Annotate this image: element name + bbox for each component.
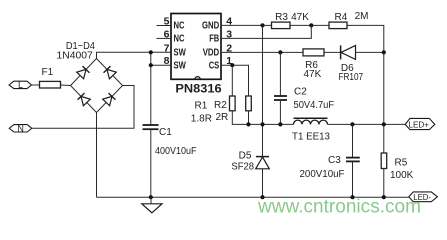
wire SW node down to C1 [150,65,152,125]
inductor T1 EE13 [292,118,330,142]
svg-text:NC: NC [174,34,185,45]
node junction CS/R1 [230,63,234,67]
svg-text:GND: GND [202,21,219,32]
wire R2 bottom [248,111,250,125]
svg-text:200V10uF: 200V10uF [300,169,345,180]
svg-text:50V4.7uF: 50V4.7uF [294,100,335,111]
wire R1 drop [231,65,233,96]
resistor R5 [381,124,413,197]
resistor R2 [214,96,251,123]
svg-text:FB: FB [209,34,219,45]
svg-text:T1 EE13: T1 EE13 [292,131,330,142]
wire D6 to right column [356,51,384,53]
pin 4 GND label [202,16,232,32]
svg-text:2R: 2R [216,112,229,123]
svg-text:1.8R: 1.8R [191,113,212,124]
pin 8 SW label [164,55,186,71]
wire R6 to D6 [324,51,341,53]
node L input tag [9,80,32,90]
node junction column/LED line [260,122,264,126]
wire FB pin to divider [221,25,311,38]
node junction VDD/C2 [278,50,282,54]
resistor R3 [272,12,310,29]
wire F1 to bridge [61,84,71,87]
pin 1 CS label [209,55,233,71]
wire VDD pin to R6 [221,51,303,53]
svg-text:SF28: SF28 [231,162,254,173]
svg-text:LED+: LED+ [409,119,430,129]
node junction GND/D5 [260,23,264,27]
pin 3 FB label [209,28,232,44]
svg-text:D5: D5 [239,151,252,162]
capacitor C1 [143,125,197,157]
node junction R3/R4/FB [309,23,313,27]
svg-text:R3: R3 [275,12,288,23]
node junction C2/LED line [278,122,282,126]
svg-text:C3: C3 [328,155,341,166]
resistor R1 [191,96,235,124]
node junction C3/rail [350,195,354,199]
node junction C3/LED line [350,122,354,126]
wire right column down to LED+ line [383,52,385,124]
wire R1 bottom to output line [232,111,293,125]
node junction SW2 [149,63,153,67]
node junction SW1 [149,50,153,54]
capacitor C2 [274,52,334,124]
wire GND pin to R3 [221,24,272,26]
node junction D5/rail [260,195,264,199]
svg-text:VDD: VDD [203,47,220,58]
wire L to F1 [32,84,40,86]
svg-text:R1: R1 [195,101,208,112]
node junction R2/line [246,122,250,126]
diode bridge D1~D4 frame [57,41,123,113]
node junction R5/LED line [382,122,386,126]
svg-text:L: L [18,80,23,90]
wire R4 to right column [347,25,384,52]
wire SW pin8 branch [151,52,171,65]
svg-text:6: 6 [164,28,170,40]
diode D4 (bridge bottom-right) [103,93,116,106]
svg-text:1N4007: 1N4007 [57,50,94,61]
resistor R6 [303,49,324,80]
wire bottom rail [97,196,409,198]
svg-text:7: 7 [164,42,170,54]
node LED+ output tag [405,118,435,129]
op-amp U1 PN8316 body [171,14,222,96]
wire D5 column [262,25,264,156]
node rail-C1 junction [149,195,153,199]
ground [142,197,162,213]
svg-text:400V10uF: 400V10uF [155,146,197,157]
diode D3 (bridge bottom-left) [78,93,91,106]
wire bridge+ to SW pins [97,52,172,58]
svg-text:FR107: FR107 [339,72,364,83]
node junction D6/right column [382,50,386,54]
fuse F1 [40,67,61,88]
svg-text:R5: R5 [395,158,408,169]
capacitor C3 [300,124,360,197]
svg-text:47K: 47K [304,69,322,80]
svg-text:PN8316: PN8316 [175,84,221,96]
wire C1 to ground rail [150,129,152,197]
pin 7 SW label [164,42,186,58]
wire T1 to LED+ [328,123,406,125]
wire bridge- down [96,113,98,198]
svg-text:www.cntronics.com: www.cntronics.com [257,197,421,218]
svg-text:NC: NC [174,21,185,32]
diode D1 (bridge top-left) [77,66,90,79]
diode D6 FR107 [339,45,364,82]
wire CS pin to R1/R2 [221,65,249,96]
pin 6 NC stub [157,28,185,44]
svg-text:47K: 47K [291,12,309,23]
wire N to bridge right corner [32,86,134,129]
wire D5 to rail [262,169,264,197]
svg-text:CS: CS [209,60,220,71]
svg-text:C1: C1 [159,127,172,138]
svg-text:R4: R4 [335,12,348,23]
resistor R4 [329,11,369,29]
svg-text:100K: 100K [390,170,414,181]
pin 2 VDD label [203,42,233,58]
svg-text:F1: F1 [42,67,54,78]
svg-text:SW: SW [174,60,187,71]
diode D2 (bridge top-right) [104,66,117,79]
node LED- output tag [409,192,438,202]
svg-text:2M: 2M [355,11,369,22]
svg-text:N: N [17,123,24,133]
svg-text:8: 8 [164,55,170,67]
node junction R5/rail [382,195,386,199]
pin 5 NC stub [157,16,185,32]
svg-text:SW: SW [174,47,187,58]
diode D5 SF28 [231,151,269,173]
svg-text:5: 5 [164,16,170,28]
wire R3 to R4 [290,24,329,26]
svg-text:C2: C2 [294,87,307,98]
svg-text:R2: R2 [214,100,227,111]
node N input tag [9,123,32,133]
